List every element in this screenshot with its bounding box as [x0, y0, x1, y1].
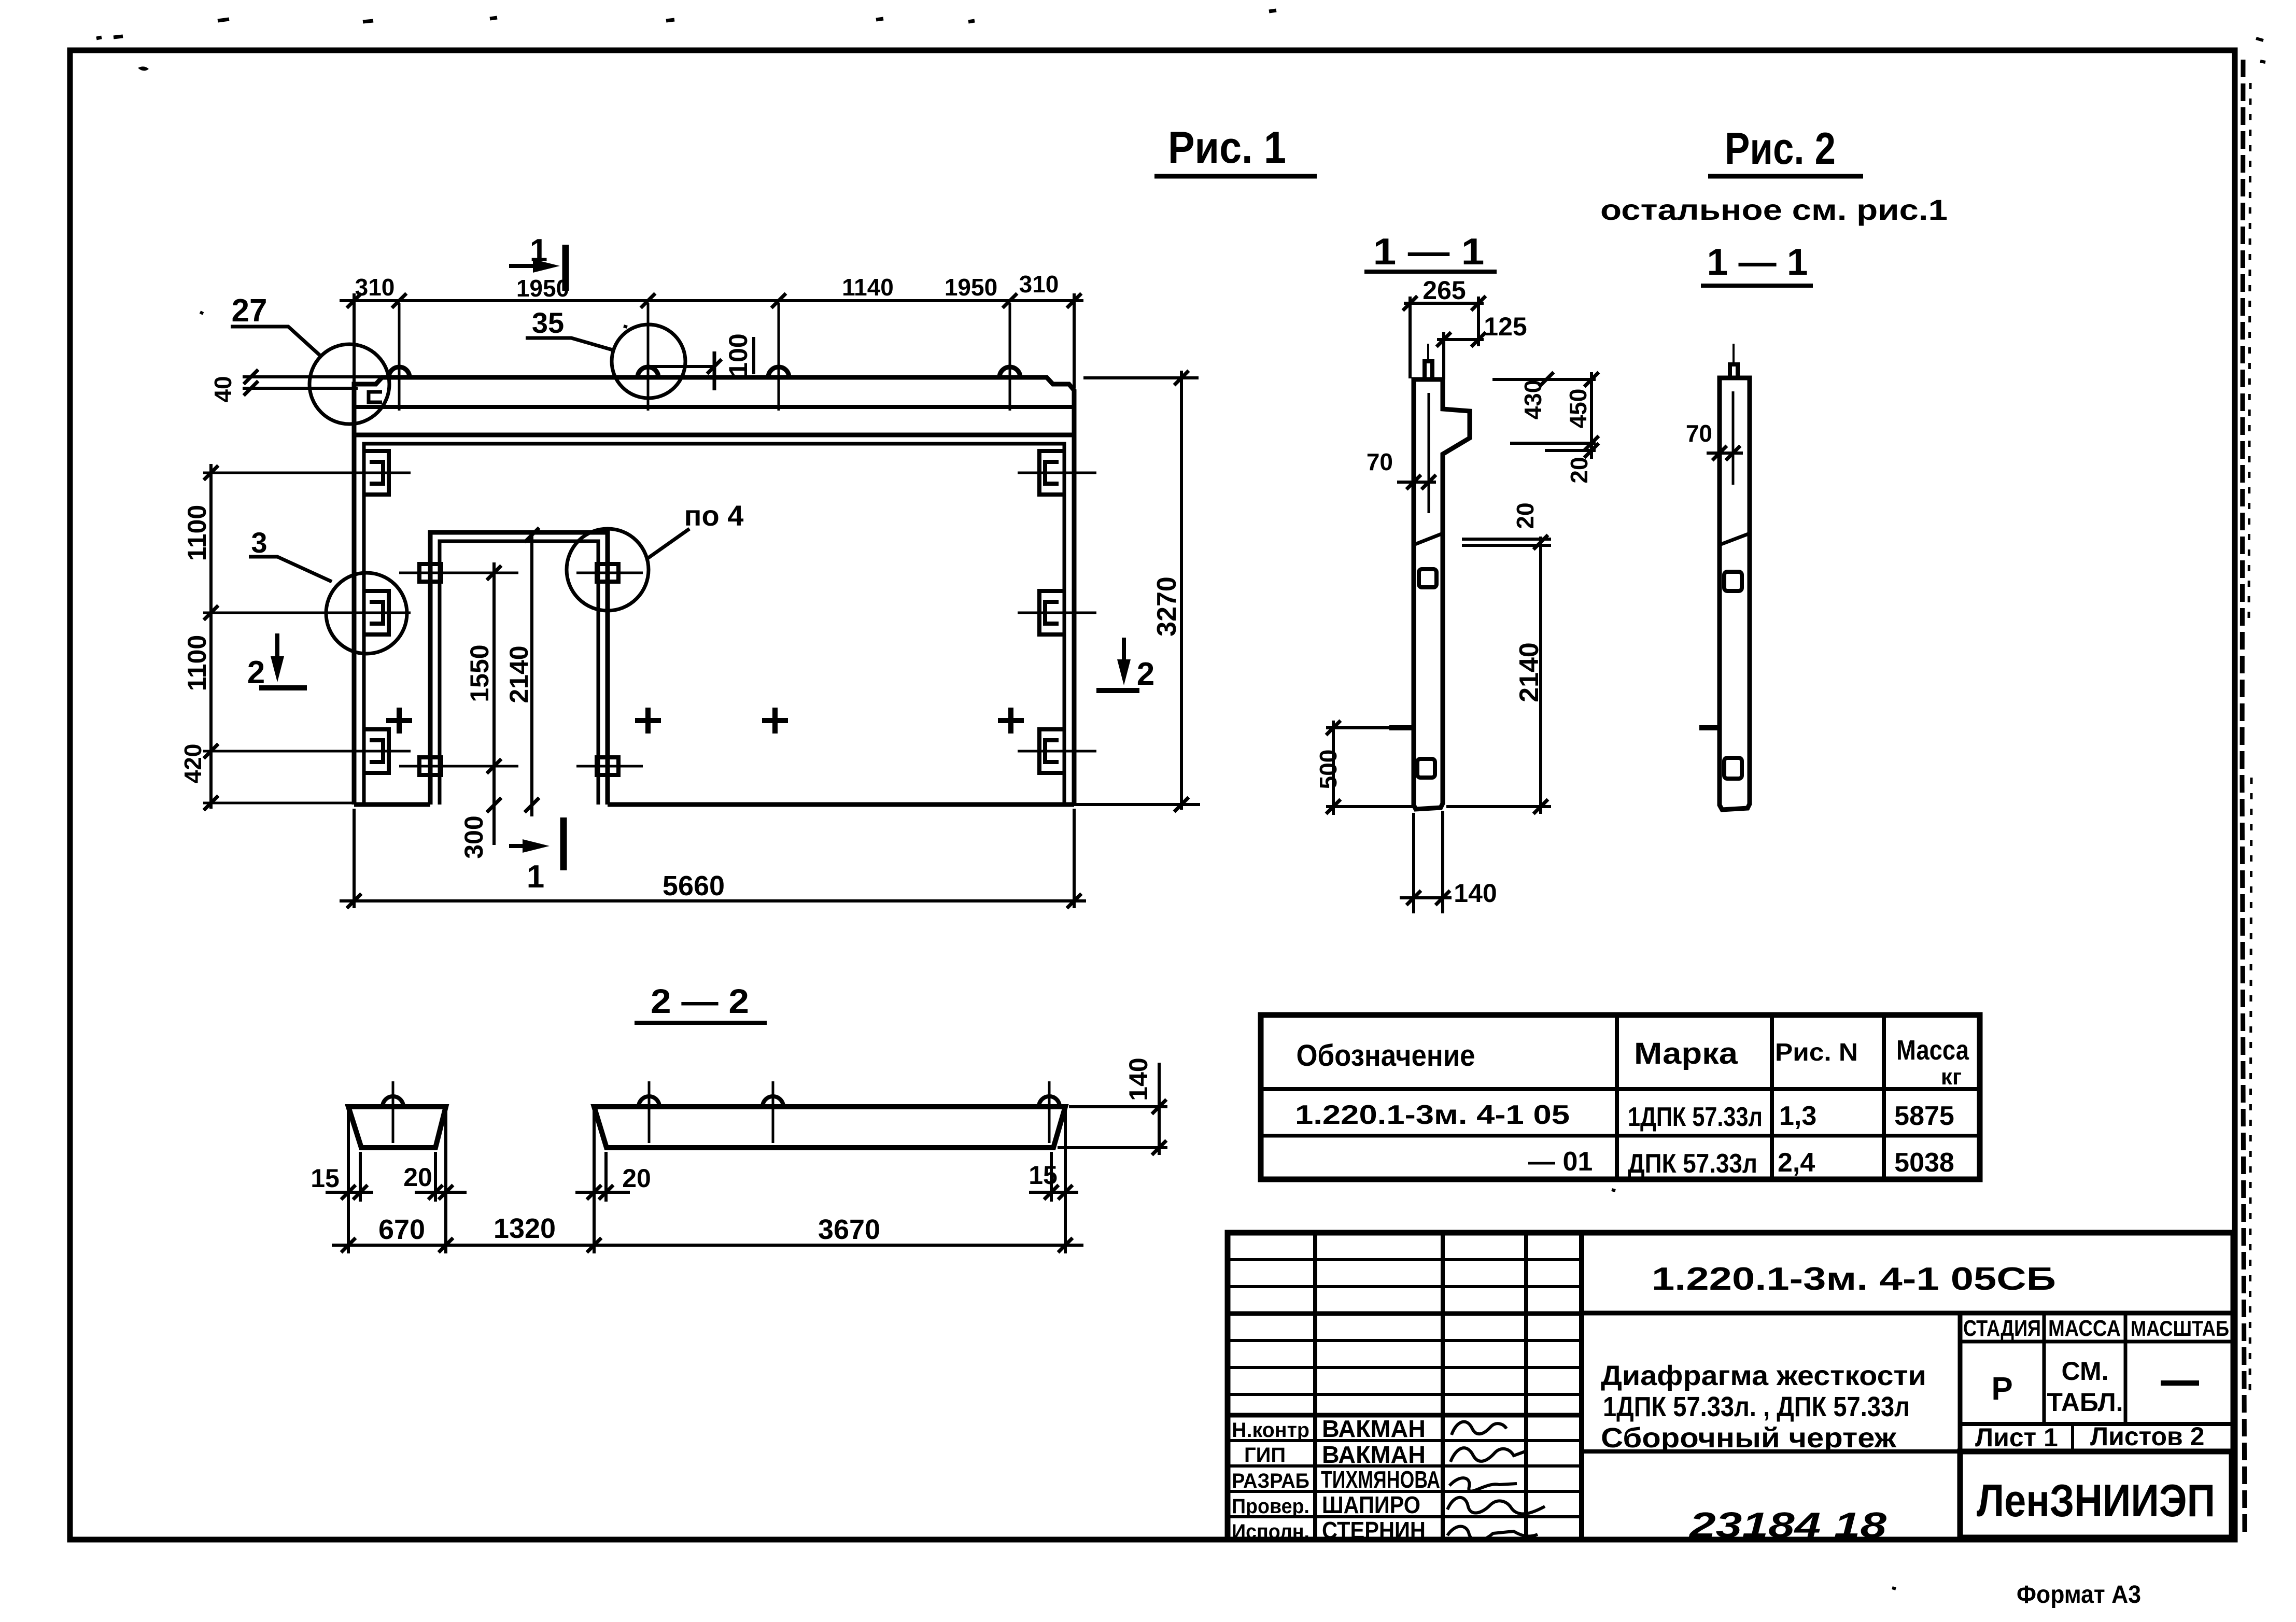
svg-text:20: 20 — [622, 1164, 651, 1193]
svg-text:Диафрагма жесткости: Диафрагма жесткости — [1601, 1360, 1926, 1391]
svg-text:ДПК 57.33л: ДПК 57.33л — [1628, 1149, 1757, 1179]
dim 20 left piece — [415, 1191, 467, 1194]
lifting loop 2 — [638, 367, 658, 377]
svg-text:1 — 1: 1 — 1 — [1373, 231, 1485, 273]
dim 140 sec 2-2 — [1158, 1063, 1161, 1155]
svg-text:27: 27 — [232, 293, 267, 329]
svg-text:1950: 1950 — [516, 275, 569, 302]
svg-text:1: 1 — [527, 859, 544, 895]
dim 100 at loop 2 — [649, 365, 714, 368]
profile 2 embed holes — [1724, 572, 1742, 591]
svg-text:450: 450 — [1565, 389, 1591, 429]
top dimension line — [340, 299, 1083, 302]
svg-text:1.220.1-3м. 4-1 05СБ: 1.220.1-3м. 4-1 05СБ — [1652, 1261, 2056, 1297]
svg-text:Рис. N: Рис. N — [1775, 1039, 1858, 1066]
profile stub top — [1425, 361, 1432, 379]
sec 2-2 small dim ticks — [341, 1185, 1073, 1200]
detail circle 27 — [309, 344, 389, 424]
svg-text:1100: 1100 — [182, 635, 212, 691]
embed plates right edge — [1039, 451, 1064, 773]
svg-text:Листов 2: Листов 2 — [2090, 1422, 2204, 1451]
svg-text:265: 265 — [1422, 276, 1466, 305]
svg-text:ЛенЗНИИЭП: ЛенЗНИИЭП — [1977, 1475, 2215, 1526]
svg-text:Масса: Масса — [1896, 1035, 1969, 1066]
dim 20 right piece — [575, 1191, 630, 1194]
svg-text:Исполн.: Исполн. — [1232, 1520, 1309, 1543]
svg-text:3670: 3670 — [818, 1214, 880, 1245]
panel outer edges — [354, 435, 1074, 805]
svg-text:СТАДИЯ: СТАДИЯ — [1963, 1316, 2041, 1341]
svg-text:5038: 5038 — [1894, 1148, 1954, 1178]
right dimension 3270 — [1180, 371, 1183, 810]
svg-text:СТЕРНИН: СТЕРНИН — [1322, 1517, 1426, 1544]
dims 430 450 20 top right — [1492, 372, 1596, 459]
svg-text:2140: 2140 — [1514, 642, 1544, 702]
title block left grid rows — [1228, 1260, 1582, 1517]
door jamb anchor bolts — [419, 564, 618, 775]
svg-text:3: 3 — [251, 526, 267, 559]
dim 2140 profile — [1539, 537, 1542, 814]
section 1-1 profile (fig.2) — [1720, 378, 1750, 810]
scan specks top — [96, 10, 1276, 38]
dim 20 mid profile — [1462, 539, 1551, 545]
svg-text:2: 2 — [247, 655, 265, 690]
right piece loops — [639, 1096, 1060, 1107]
stage grid — [2044, 1313, 2125, 1424]
svg-text:35: 35 — [532, 306, 564, 339]
section 2-2 left piece — [348, 1107, 446, 1148]
door opening inner — [440, 541, 598, 805]
dim 70 left profile — [1397, 481, 1436, 484]
svg-text:1950: 1950 — [945, 274, 997, 301]
scan noise band right edge — [2242, 60, 2245, 1533]
dim 265 — [1404, 302, 1484, 305]
svg-text:3270: 3270 — [1152, 576, 1182, 637]
section 1-1 profile (fig.1) — [1414, 379, 1470, 809]
svg-text:ВАКМАН: ВАКМАН — [1322, 1415, 1426, 1442]
svg-text:Обозначение: Обозначение — [1297, 1039, 1475, 1073]
panel inner frame line — [364, 444, 1064, 805]
svg-text:Лист 1: Лист 1 — [1975, 1423, 2058, 1452]
profile side plate tick — [1389, 725, 1414, 730]
svg-text:1ДПК 57.33л: 1ДПК 57.33л — [1628, 1102, 1763, 1132]
svg-text:1140: 1140 — [842, 274, 894, 301]
profile 2 stub — [1730, 364, 1738, 378]
svg-text:остальное см. рис.1: остальное см. рис.1 — [1600, 193, 1948, 226]
svg-text:МАСШТАБ: МАСШТАБ — [2131, 1316, 2229, 1341]
svg-text:20: 20 — [403, 1163, 432, 1192]
svg-text:430: 430 — [1519, 380, 1546, 420]
svg-text:1 — 1: 1 — 1 — [1707, 242, 1808, 283]
svg-text:ТИХМЯНОВА: ТИХМЯНОВА — [1321, 1466, 1440, 1493]
detail circle 3 — [326, 573, 407, 654]
profile embed holes — [1419, 569, 1436, 587]
lifting loop 1 — [389, 367, 410, 377]
detail circle 35 — [612, 325, 685, 398]
svg-text:ШАПИРО: ШАПИРО — [1322, 1491, 1420, 1518]
svg-text:23184 18: 23184 18 — [1688, 1505, 1886, 1545]
handwritten signatures — [1452, 1422, 1506, 1435]
svg-text:500: 500 — [1315, 750, 1342, 789]
profile 2 centerline — [1732, 391, 1735, 485]
section 2-2 right piece — [594, 1107, 1065, 1148]
svg-text:— 01: — 01 — [1528, 1147, 1593, 1177]
dim 500 profile — [1332, 721, 1335, 815]
dim 15 right — [1029, 1191, 1078, 1194]
svg-text:1100: 1100 — [182, 505, 212, 561]
sec 2-2 extension lines — [348, 1110, 1065, 1253]
dim 70 right profile — [1707, 452, 1743, 455]
left piece loop — [383, 1096, 403, 1107]
lifting loop 3 — [768, 367, 789, 377]
svg-text:140: 140 — [1124, 1057, 1153, 1101]
dim 15 left — [326, 1191, 373, 1194]
svg-text:70: 70 — [1367, 448, 1393, 475]
svg-text:Формат А3: Формат А3 — [2017, 1581, 2141, 1609]
dim 140 profile bottom — [1400, 811, 1452, 913]
profile break line — [1414, 533, 1443, 545]
svg-text:5660: 5660 — [663, 870, 725, 901]
svg-text:670: 670 — [378, 1214, 425, 1245]
centroid crosses — [386, 708, 1024, 734]
svg-text:300: 300 — [459, 815, 488, 858]
svg-text:125: 125 — [1484, 312, 1527, 341]
dim 2140 vertical — [530, 535, 533, 816]
svg-text:2 — 2: 2 — 2 — [651, 982, 749, 1020]
profile centerline — [1428, 393, 1430, 513]
svg-text:Рис. 1: Рис. 1 — [1168, 123, 1286, 173]
svg-text:2: 2 — [1137, 656, 1154, 692]
LenZNIIEP box — [1960, 1451, 2232, 1538]
svg-text:20: 20 — [1512, 502, 1539, 529]
parts table — [1261, 1015, 1980, 1179]
svg-text:Провер.: Провер. — [1232, 1495, 1309, 1518]
sec 2-2 main dim line 670 1320 3670 — [332, 1244, 1083, 1247]
beam mid line — [354, 405, 1074, 409]
loop centerlines — [399, 303, 1010, 411]
svg-text:40: 40 — [209, 376, 236, 402]
beam end bearing detail left — [369, 392, 382, 402]
svg-text:140: 140 — [1454, 879, 1497, 908]
svg-text:420: 420 — [179, 744, 206, 784]
svg-text:1550: 1550 — [465, 644, 494, 702]
top dim ticks — [347, 293, 1081, 308]
svg-text:2140: 2140 — [504, 645, 533, 703]
svg-text:15: 15 — [311, 1164, 340, 1193]
embed plates left edge — [364, 451, 389, 773]
sheet row — [2071, 1424, 2074, 1451]
embed centerlines — [203, 473, 1096, 751]
svg-text:1,3: 1,3 — [1779, 1101, 1816, 1131]
svg-text:МАССА: МАССА — [2048, 1316, 2121, 1341]
profile 2 side plate tick — [1699, 725, 1720, 730]
svg-text:310: 310 — [355, 274, 395, 301]
svg-text:кг: кг — [1941, 1064, 1962, 1090]
svg-text:Н.контр: Н.контр — [1232, 1419, 1309, 1442]
svg-text:Сборочный чертеж: Сборочный чертеж — [1601, 1422, 1897, 1454]
dim 125 — [1437, 338, 1484, 341]
dim 5660 bottom — [340, 899, 1086, 902]
left dimension chain 1100 1100 420 — [209, 464, 213, 809]
svg-text:1ДПК 57.33л. , ДПК 57.33л: 1ДПК 57.33л. , ДПК 57.33л — [1603, 1391, 1910, 1422]
top beam outline — [354, 377, 1074, 435]
svg-text:Марка: Марка — [1634, 1037, 1738, 1070]
svg-text:ВАКМАН: ВАКМАН — [1322, 1441, 1426, 1468]
dim 1550 vertical — [492, 562, 496, 845]
bolt centerlines — [399, 573, 643, 766]
title block left grid verticals — [1315, 1233, 1526, 1540]
svg-text:ГИП: ГИП — [1244, 1444, 1286, 1466]
svg-text:ТАБЛ.: ТАБЛ. — [2047, 1388, 2123, 1417]
svg-text:Рис. 2: Рис. 2 — [1725, 124, 1836, 174]
title block outer — [1228, 1233, 2233, 1540]
svg-text:20: 20 — [1566, 457, 1593, 483]
profile 2 break line — [1720, 533, 1750, 545]
lifting loop 4 — [999, 367, 1020, 377]
door opening outer — [430, 532, 608, 805]
svg-text:100: 100 — [724, 333, 753, 376]
svg-text:1.220.1-3м. 4-1 05: 1.220.1-3м. 4-1 05 — [1295, 1100, 1570, 1130]
svg-text:310: 310 — [1019, 271, 1059, 298]
svg-text:РАЗРАБ: РАЗРАБ — [1232, 1470, 1309, 1492]
svg-text:СМ.: СМ. — [2062, 1357, 2109, 1386]
svg-text:5875: 5875 — [1894, 1101, 1954, 1131]
svg-text:1320: 1320 — [494, 1213, 556, 1244]
svg-text:2,4: 2,4 — [1778, 1148, 1815, 1178]
detail circle po4 — [567, 529, 649, 611]
svg-text:70: 70 — [1686, 420, 1712, 447]
svg-text:по 4: по 4 — [684, 499, 744, 532]
svg-text:Р: Р — [1991, 1371, 2012, 1407]
svg-text:15: 15 — [1029, 1161, 1058, 1190]
dim 40 top left — [243, 377, 382, 388]
